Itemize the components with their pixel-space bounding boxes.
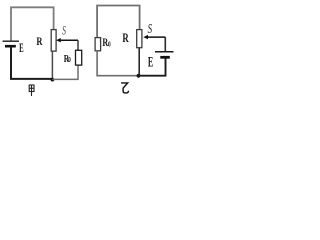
resistor R0 (left circuit) box: [76, 50, 82, 65]
svg-text:R: R: [122, 33, 129, 46]
junction dot (right circuit): [137, 74, 141, 78]
label R0 (right circuit): [102, 37, 111, 50]
wiper arrow of R (right), slider: [143, 35, 148, 39]
wire: left wire below R0 and grey bottom segment: [97, 51, 138, 76]
svg-text:S: S: [62, 25, 66, 38]
svg-text:0: 0: [68, 57, 71, 64]
label R0 (left circuit): [64, 53, 71, 64]
battery E (right): long thin plate: [155, 51, 174, 53]
svg-text:E: E: [19, 42, 24, 56]
wire: bottom wire to battery (right): [139, 57, 166, 75]
label yi (right circuit): [121, 83, 128, 93]
svg-text:R: R: [36, 36, 43, 49]
battery E (left): short thick plate: [5, 45, 16, 48]
svg-text:S: S: [148, 22, 153, 36]
battery E (left): long thin plate: [3, 40, 20, 42]
wire: top-left loop wire: [11, 7, 54, 40]
battery E (right): short thick plate: [160, 56, 170, 59]
resistor R (left circuit) box: [51, 30, 56, 51]
wire: top loop wire of right circuit: [97, 6, 140, 38]
resistor R0 (right circuit) box: [95, 38, 101, 51]
wiper arrow of R (left), slider: [56, 38, 61, 42]
wire: wiper lead down to battery top: [164, 37, 166, 52]
junction dot (left circuit): [51, 78, 55, 82]
resistor R (right circuit) box: [137, 30, 142, 48]
label jia (left circuit): [29, 85, 34, 96]
wire: wiper lead down to R0: [77, 40, 79, 50]
svg-text:E: E: [148, 54, 153, 70]
wire: bottom wire grey segment and R0 branch up: [52, 65, 78, 79]
background: [0, 0, 174, 97]
wire: R bottom lead (right): [138, 48, 140, 76]
wire: R bottom lead to bottom wire: [51, 51, 53, 79]
wire: left wire below battery and bottom-left wire: [11, 46, 52, 79]
